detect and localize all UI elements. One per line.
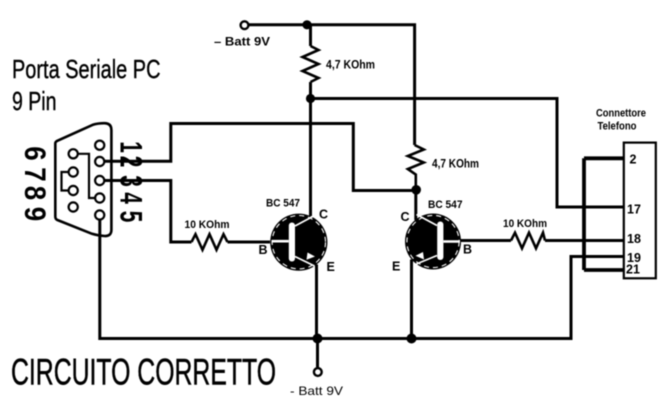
svg-text:4,7 KOhm: 4,7 KOhm [432,159,479,171]
svg-text:1: 1 [113,141,148,153]
svg-text:2: 2 [630,153,637,167]
svg-text:9 Pin: 9 Pin [12,86,57,116]
svg-text:8: 8 [18,186,51,200]
svg-text:18: 18 [627,232,641,246]
svg-text:CIRCUITO CORRETTO: CIRCUITO CORRETTO [11,351,276,393]
svg-text:Connettore: Connettore [596,107,646,119]
svg-text:10 KOhm: 10 KOhm [185,219,230,231]
svg-text:C: C [401,210,410,224]
svg-text:B: B [463,243,472,257]
svg-text:BC 547: BC 547 [428,199,463,211]
svg-text:Telefono: Telefono [598,120,637,132]
svg-text:5: 5 [113,211,148,223]
svg-text:10 KOhm: 10 KOhm [503,218,547,230]
svg-text:4: 4 [113,192,148,204]
svg-text:E: E [392,260,400,274]
svg-text:– Batt 9V: – Batt 9V [214,34,270,48]
svg-text:Porta Seriale PC: Porta Seriale PC [12,54,161,84]
svg-text:17: 17 [627,203,641,217]
svg-text:2: 2 [113,156,148,168]
svg-text:4,7 KOhm: 4,7 KOhm [326,60,375,72]
svg-text:3: 3 [113,175,148,187]
svg-text:B: B [259,243,268,257]
svg-text:C: C [319,208,328,222]
svg-text:BC 547: BC 547 [266,198,300,210]
svg-text:6: 6 [18,146,51,160]
svg-text:21: 21 [626,262,640,276]
svg-text:- Batt 9V: - Batt 9V [290,384,343,398]
svg-text:9: 9 [18,207,51,221]
svg-text:E: E [327,260,335,274]
svg-text:7: 7 [18,167,51,181]
